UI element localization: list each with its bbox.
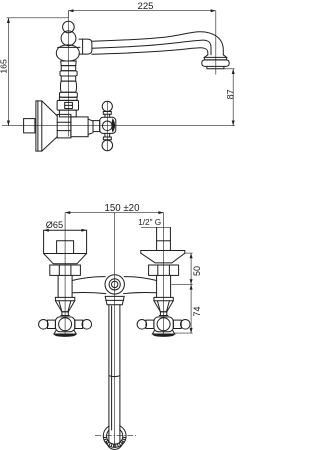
left hex nut facets: [59, 265, 71, 275]
pipe joint arc: [109, 375, 120, 378]
outlet mouth arc: [107, 441, 123, 449]
left cup escutcheon: [44, 230, 87, 263]
svg-text:150 ±20: 150 ±20: [105, 203, 141, 214]
left handle right ball: [82, 320, 92, 330]
wall flange cone: [42, 101, 57, 151]
extension line outlet bottom to 87: [224, 68, 235, 70]
right handle left ball: [137, 320, 147, 330]
extension line right of 225 through spout outlet: [215, 11, 217, 75]
handle hub circle: [103, 121, 113, 131]
extension line left of 225 (faucet centerline top): [67, 11, 69, 18]
dimension 50-74 line: [190, 253, 193, 333]
svg-text:Ø65: Ø65: [46, 220, 63, 230]
column ring 3 wide: [60, 71, 77, 76]
spout collar ring line: [82, 39, 84, 54]
outlet inner circle: [107, 428, 123, 444]
handle top arm: [103, 112, 111, 118]
valve cap square: [57, 100, 78, 110]
finial small ball: [63, 21, 75, 33]
svg-text:225: 225: [137, 1, 153, 12]
right handle stem line: [159, 315, 168, 317]
right handle skirt dark arc: [152, 334, 174, 337]
left handle hub: [55, 317, 74, 332]
valve cap band: [59, 110, 76, 117]
down pipe right wall: [119, 305, 121, 442]
column flange ring: [59, 97, 77, 100]
dimension 225 line: [68, 9, 216, 12]
left handle skirt: [54, 330, 76, 334]
right thread stub lower box: [157, 241, 171, 251]
column ring 1: [61, 61, 76, 66]
outlet torus: [202, 60, 229, 67]
svg-text:165: 165: [0, 59, 8, 74]
dimension 150 +-20 line: [65, 211, 164, 214]
inlet axis centerline: [2, 125, 235, 127]
column ring 5: [60, 92, 78, 97]
spout tube middle line: [92, 40, 211, 55]
left valve body: [58, 275, 72, 297]
left handle stem line: [61, 315, 70, 317]
handle bottom arm: [103, 133, 111, 139]
cone to handle: [88, 119, 93, 134]
right handle right ball: [181, 320, 191, 330]
tee hub ring circle: [109, 279, 120, 290]
pipe interior mask: [109, 415, 119, 441]
right valve centerline: [163, 213, 165, 334]
hex nut facet lines: [57, 122, 71, 130]
valve cap screw cross: [65, 104, 73, 106]
column ring 2: [61, 66, 75, 71]
right bonnet band line: [154, 300, 173, 302]
outlet outer circle: [103, 425, 126, 448]
right bonnet inner lines: [157, 301, 169, 312]
dimension O65 arrows on cup top edge: [44, 229, 87, 232]
left hex nut: [50, 265, 81, 275]
leader 1/2 G: [141, 226, 170, 228]
wall flange disc inner line: [37, 101, 39, 151]
handle hub dark crescent: [111, 118, 115, 133]
column barrel: [60, 81, 76, 92]
right handle front ball: [157, 318, 170, 331]
dimension 87 line: [232, 69, 235, 126]
left cup rim line: [44, 253, 87, 255]
left handle left arm: [48, 320, 56, 328]
wall nipple: [24, 119, 35, 133]
left bonnet: [55, 297, 74, 311]
left handle stem: [62, 312, 68, 316]
pipe centerline through outlet: [114, 415, 116, 448]
dimension 165 line: [7, 18, 10, 126]
right handle right arm: [173, 320, 181, 328]
handle hub side: [100, 117, 116, 133]
right handle left arm: [146, 320, 154, 328]
handle axis centerline: [106, 102, 108, 151]
outlet centerline dash-dot: [95, 434, 136, 436]
outlet flare: [204, 55, 226, 58]
tee hub outer circle: [105, 275, 124, 294]
svg-text:1/2" G: 1/2" G: [138, 218, 161, 227]
tee hub inner circle: [112, 281, 118, 287]
spout tube bottom line: [92, 48, 208, 55]
finial large ball: [61, 31, 76, 46]
extension line top of 165: [7, 17, 69, 19]
left tee arm top: [72, 277, 105, 281]
spout collar: [79, 39, 92, 54]
right bonnet: [154, 297, 173, 311]
valve body side: [71, 117, 88, 137]
pipe collar: [105, 296, 124, 304]
outlet band: [204, 57, 226, 60]
outlet bottom plate: [207, 66, 224, 68]
right handle skirt: [152, 330, 174, 334]
body bulge: [56, 45, 79, 61]
down pipe highlight: [111, 306, 113, 430]
left handle front ball: [59, 318, 72, 331]
handle bottom ball: [102, 140, 113, 151]
right tee arm top: [124, 277, 156, 281]
column ring 4: [61, 76, 75, 81]
right flange bell: [141, 251, 185, 263]
left cup inner square: [57, 241, 74, 254]
faucet column centerline: [67, 11, 69, 137]
left valve centerline: [64, 213, 66, 334]
left bonnet inner lines: [59, 301, 71, 312]
svg-text:50: 50: [192, 266, 202, 276]
extension handle bottom: [175, 332, 193, 334]
handle stem side: [93, 121, 100, 132]
left handle skirt dark arc: [54, 334, 76, 337]
right valve body: [157, 275, 171, 297]
outlet knurl ticks: [104, 437, 126, 447]
center pipe centerline: [114, 213, 116, 448]
svg-text:74: 74: [192, 306, 202, 316]
pipe collar line: [106, 299, 124, 301]
hex nut side: [57, 114, 71, 137]
left handle right arm: [75, 320, 83, 328]
svg-text:87: 87: [225, 89, 235, 99]
spout tube top line: [92, 32, 223, 55]
right tee arm bottom: [124, 293, 157, 294]
right hex nut: [149, 265, 179, 275]
right handle hub: [154, 317, 173, 332]
left handle left ball: [39, 320, 49, 330]
extension flange top: [185, 252, 193, 254]
left bonnet band line: [55, 300, 74, 302]
wall flange disc: [36, 101, 42, 151]
down pipe left wall: [108, 305, 110, 442]
right hex nut facets: [158, 265, 170, 275]
right handle stem: [160, 312, 166, 316]
extension pipe axis: [172, 283, 193, 285]
handle top ball: [102, 101, 112, 111]
valve cap inner square: [65, 102, 73, 108]
right thread stub: [157, 227, 171, 240]
left tee arm bottom: [72, 293, 106, 294]
body bulge seam line: [58, 46, 80, 48]
